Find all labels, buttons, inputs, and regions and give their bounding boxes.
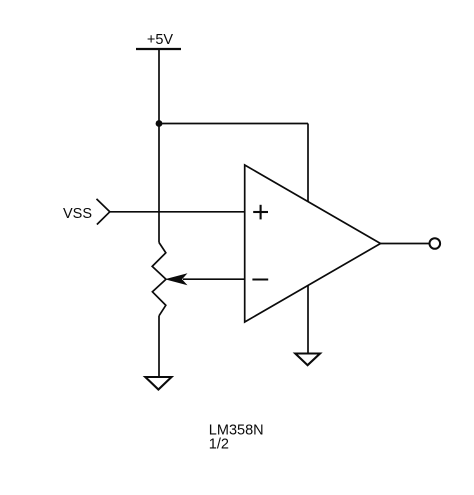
wire VSS port to op-amp non-inverting input bbox=[110, 211, 245, 213]
port VSS bbox=[63, 199, 110, 225]
ground (op-amp V- pin) bbox=[295, 354, 320, 366]
wire +5V rail down to junction bbox=[158, 49, 160, 124]
junction node dot bbox=[156, 120, 163, 127]
svg-text:+5V: +5V bbox=[147, 32, 174, 48]
wire op-amp V+ pin (vertical) bbox=[307, 124, 309, 203]
label LM358N 1/2 bbox=[209, 422, 264, 452]
wire op-amp inverting input to potentiometer wiper (arrow) bbox=[165, 273, 245, 285]
wire junction to op-amp V+ pin (horizontal) bbox=[159, 123, 308, 125]
output terminal (open circle) bbox=[430, 238, 441, 249]
ground (potentiometer) bbox=[145, 377, 171, 390]
wire junction down to potentiometer top bbox=[158, 124, 160, 243]
op-amp U1 LM358N bbox=[245, 165, 381, 322]
svg-text:VSS: VSS bbox=[63, 206, 92, 222]
wire op-amp V- pin to ground bbox=[307, 285, 309, 354]
potentiometer (zigzag body) bbox=[152, 243, 166, 316]
wire potentiometer bottom to ground bbox=[158, 316, 160, 377]
power +5V rail bbox=[136, 32, 181, 49]
wire op-amp output bbox=[381, 243, 430, 245]
svg-text:1/2: 1/2 bbox=[209, 436, 229, 452]
